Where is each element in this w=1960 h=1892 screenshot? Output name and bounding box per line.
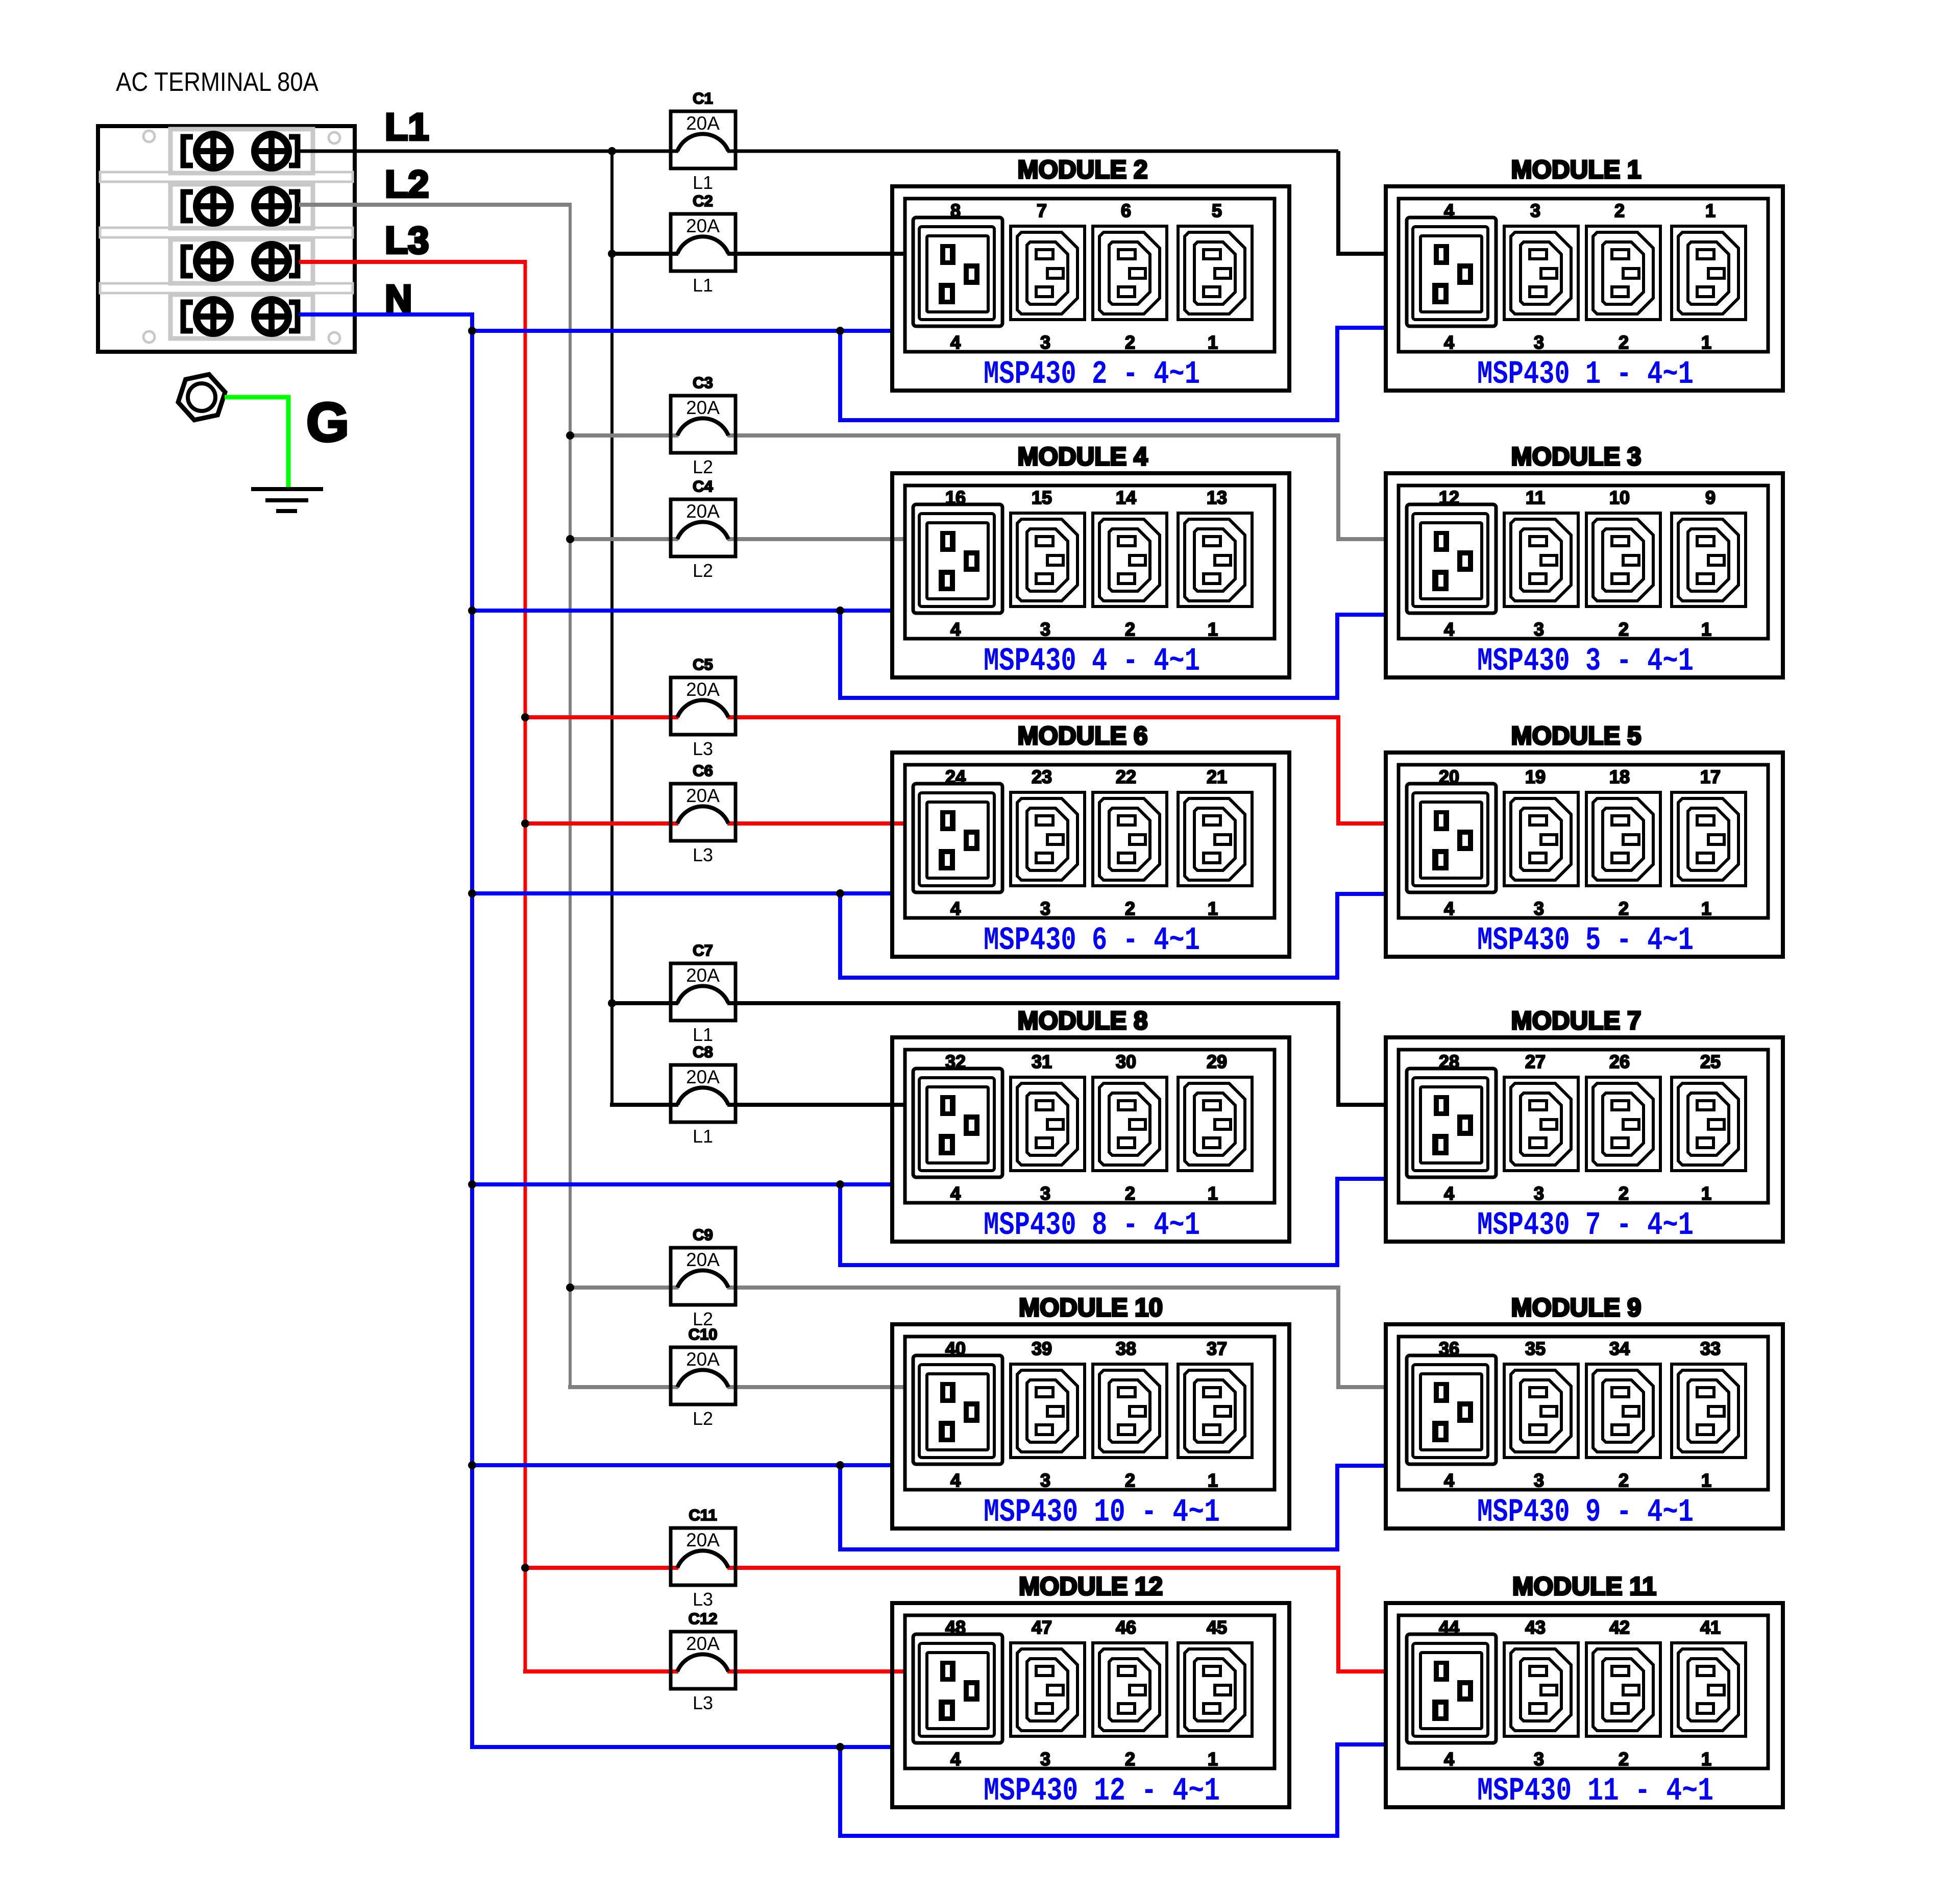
svg-text:AC TERMINAL 80A: AC TERMINAL 80A bbox=[116, 67, 318, 97]
wire N branch under module 8 to module 7 bbox=[840, 1179, 1386, 1265]
wire N row 6 to module 12 bbox=[470, 1745, 892, 1749]
junction N row 1 branch bbox=[836, 327, 844, 335]
module 12 (MSP430 outlet module) bbox=[892, 1572, 1289, 1807]
wire L1 feed from terminal bbox=[299, 150, 1338, 153]
junction N row 4 branch bbox=[836, 1180, 844, 1188]
svg-text:2: 2 bbox=[1125, 1183, 1135, 1204]
svg-text:15: 15 bbox=[1032, 487, 1052, 508]
circuit breaker C7 20A bbox=[671, 941, 736, 1021]
svg-text:41: 41 bbox=[1700, 1617, 1721, 1638]
svg-text:C1: C1 bbox=[693, 89, 713, 107]
svg-text:2: 2 bbox=[1125, 898, 1135, 919]
wire N feed from terminal bbox=[299, 312, 474, 317]
svg-text:L3: L3 bbox=[385, 219, 429, 261]
svg-text:4: 4 bbox=[1444, 332, 1454, 353]
outlet 26 (C13 socket) bbox=[1586, 1077, 1660, 1171]
svg-text:20A: 20A bbox=[686, 501, 720, 522]
outlet 28 (C19 socket) bbox=[1407, 1069, 1496, 1177]
outlet 18 (C13 socket) bbox=[1586, 792, 1660, 886]
svg-text:20A: 20A bbox=[686, 785, 720, 806]
svg-text:2: 2 bbox=[1619, 1183, 1629, 1204]
svg-text:MSP430 9 - 4~1: MSP430 9 - 4~1 bbox=[1477, 1494, 1694, 1531]
svg-text:C3: C3 bbox=[693, 374, 713, 392]
svg-text:2: 2 bbox=[1125, 332, 1135, 353]
svg-text:20A: 20A bbox=[686, 1633, 720, 1654]
svg-text:13: 13 bbox=[1207, 487, 1227, 508]
svg-text:20A: 20A bbox=[686, 1249, 720, 1270]
svg-text:C4: C4 bbox=[693, 477, 713, 495]
circuit breaker C8 20A bbox=[671, 1043, 736, 1122]
svg-text:C12: C12 bbox=[689, 1610, 718, 1628]
svg-text:2: 2 bbox=[1619, 1470, 1629, 1491]
outlet 11 (C13 socket) bbox=[1504, 513, 1578, 607]
wire phase L3 row to breaker C5 and module 5 bbox=[525, 717, 1386, 823]
module 6 (MSP430 outlet module) bbox=[892, 721, 1289, 957]
svg-text:5: 5 bbox=[1212, 200, 1222, 221]
circuit breaker C11 20A bbox=[671, 1506, 736, 1585]
svg-text:MODULE 1: MODULE 1 bbox=[1511, 155, 1641, 184]
svg-text:L2: L2 bbox=[693, 1408, 713, 1429]
svg-text:2: 2 bbox=[1619, 619, 1629, 640]
svg-text:1: 1 bbox=[1701, 898, 1711, 919]
svg-text:35: 35 bbox=[1525, 1338, 1546, 1359]
junction N row 2 branch bbox=[836, 607, 844, 615]
outlet 19 (C13 socket) bbox=[1504, 792, 1578, 886]
svg-text:4: 4 bbox=[1444, 1749, 1454, 1769]
svg-text:C6: C6 bbox=[693, 762, 713, 780]
svg-text:20A: 20A bbox=[686, 679, 720, 700]
svg-text:43: 43 bbox=[1525, 1617, 1546, 1638]
svg-text:2: 2 bbox=[1619, 332, 1629, 353]
wire L2 trunk vertical bbox=[569, 203, 572, 1387]
svg-text:19: 19 bbox=[1525, 766, 1546, 787]
junction L2 trunk at C4 bbox=[566, 535, 574, 543]
svg-text:4: 4 bbox=[950, 1183, 961, 1204]
module 3 (MSP430 outlet module) bbox=[1386, 442, 1783, 677]
svg-text:C9: C9 bbox=[693, 1226, 713, 1244]
wire phase L3 row to breaker C6 and module 6 bbox=[523, 821, 905, 826]
svg-text:21: 21 bbox=[1207, 766, 1227, 787]
svg-text:1: 1 bbox=[1701, 1749, 1711, 1769]
svg-text:MSP430 5 - 4~1: MSP430 5 - 4~1 bbox=[1477, 923, 1694, 959]
outlet 7 (C13 socket) bbox=[1011, 226, 1085, 320]
svg-text:26: 26 bbox=[1609, 1051, 1630, 1072]
svg-text:2: 2 bbox=[1125, 1749, 1135, 1769]
svg-text:MODULE 6: MODULE 6 bbox=[1018, 721, 1148, 750]
svg-text:MSP430 7 - 4~1: MSP430 7 - 4~1 bbox=[1477, 1207, 1694, 1244]
svg-text:20A: 20A bbox=[686, 215, 720, 236]
svg-text:C11: C11 bbox=[689, 1506, 717, 1524]
svg-text:20A: 20A bbox=[686, 397, 720, 418]
junction N trunk row 5 bbox=[468, 1461, 476, 1469]
svg-text:1: 1 bbox=[1208, 619, 1218, 640]
svg-text:29: 29 bbox=[1207, 1051, 1227, 1072]
svg-text:3: 3 bbox=[1534, 1470, 1544, 1491]
wire N branch under module 2 to module 1 bbox=[840, 328, 1386, 420]
svg-text:4: 4 bbox=[1444, 619, 1454, 640]
svg-text:MSP430 8 - 4~1: MSP430 8 - 4~1 bbox=[984, 1207, 1200, 1244]
junction L1 trunk at C2 bbox=[608, 250, 616, 258]
svg-text:9: 9 bbox=[1705, 487, 1716, 508]
outlet 1 (C13 socket) bbox=[1672, 226, 1746, 320]
svg-text:MSP430 6 - 4~1: MSP430 6 - 4~1 bbox=[984, 923, 1200, 959]
ground stud (hex nut) bbox=[178, 374, 225, 420]
outlet 27 (C13 socket) bbox=[1504, 1077, 1578, 1171]
wire phase L2 row to breaker C3 and module 3 bbox=[570, 435, 1386, 539]
wire N branch under module 4 to module 3 bbox=[840, 611, 1386, 698]
junction L2 trunk at C3 bbox=[566, 431, 574, 440]
circuit breaker C3 20A bbox=[671, 374, 736, 453]
svg-text:4: 4 bbox=[950, 1470, 961, 1491]
svg-text:20A: 20A bbox=[686, 965, 720, 986]
svg-text:MSP430 4 - 4~1: MSP430 4 - 4~1 bbox=[984, 643, 1200, 680]
svg-text:47: 47 bbox=[1032, 1617, 1052, 1638]
svg-text:MSP430 2 - 4~1: MSP430 2 - 4~1 bbox=[984, 356, 1200, 393]
module 1 (MSP430 outlet module) bbox=[1386, 155, 1783, 391]
svg-text:18: 18 bbox=[1609, 766, 1630, 787]
outlet 37 (C13 socket) bbox=[1178, 1364, 1252, 1458]
svg-text:23: 23 bbox=[1032, 766, 1052, 787]
junction N trunk row 4 bbox=[468, 1180, 476, 1188]
outlet 24 (C19 socket) bbox=[913, 784, 1002, 892]
svg-text:31: 31 bbox=[1032, 1051, 1052, 1072]
outlet 48 (C19 socket) bbox=[913, 1634, 1002, 1743]
terminal screws row L2 bbox=[183, 189, 298, 224]
svg-text:MSP430 3 - 4~1: MSP430 3 - 4~1 bbox=[1477, 643, 1694, 680]
outlet 30 (C13 socket) bbox=[1093, 1077, 1167, 1171]
circuit breaker C2 20A bbox=[671, 192, 736, 271]
svg-text:1: 1 bbox=[1208, 1183, 1218, 1204]
svg-text:L3: L3 bbox=[693, 1589, 713, 1610]
outlet 38 (C13 socket) bbox=[1093, 1364, 1167, 1458]
wire phase L3 row to breaker C11 and module 11 bbox=[525, 1568, 1386, 1671]
wire phase L1 row to breaker C8 and module 8 bbox=[610, 1103, 905, 1107]
svg-text:L3: L3 bbox=[693, 844, 713, 865]
wire phase L3 row to breaker C12 and module 12 bbox=[523, 1669, 905, 1673]
svg-text:37: 37 bbox=[1207, 1338, 1227, 1359]
junction N trunk row 3 bbox=[468, 889, 476, 898]
svg-text:2: 2 bbox=[1619, 1749, 1629, 1769]
wire N row 1 to module 2 bbox=[470, 329, 892, 333]
svg-text:25: 25 bbox=[1700, 1051, 1721, 1072]
wire N row 5 to module 10 bbox=[470, 1463, 892, 1467]
outlet 9 (C13 socket) bbox=[1672, 513, 1746, 607]
outlet 4 (C19 socket) bbox=[1407, 217, 1496, 326]
svg-text:MODULE 4: MODULE 4 bbox=[1018, 442, 1148, 471]
wire N row 4 to module 8 bbox=[470, 1182, 892, 1186]
svg-text:MSP430 10 - 4~1: MSP430 10 - 4~1 bbox=[984, 1494, 1220, 1531]
svg-text:3: 3 bbox=[1040, 1470, 1050, 1491]
outlet 6 (C13 socket) bbox=[1093, 226, 1167, 320]
terminal screws row L3 bbox=[183, 244, 298, 279]
wire L3 trunk vertical bbox=[524, 260, 527, 1671]
outlet 5 (C13 socket) bbox=[1178, 226, 1252, 320]
svg-text:42: 42 bbox=[1609, 1617, 1630, 1638]
outlet 40 (C19 socket) bbox=[913, 1355, 1002, 1464]
svg-text:L3: L3 bbox=[693, 1692, 713, 1713]
outlet 42 (C13 socket) bbox=[1586, 1643, 1660, 1736]
outlet 33 (C13 socket) bbox=[1672, 1364, 1746, 1458]
junction L1 trunk at C1 bbox=[608, 147, 616, 155]
svg-text:3: 3 bbox=[1534, 1183, 1544, 1204]
svg-text:MSP430 1 - 4~1: MSP430 1 - 4~1 bbox=[1477, 356, 1694, 393]
svg-text:2: 2 bbox=[1614, 200, 1625, 221]
svg-text:3: 3 bbox=[1040, 1749, 1050, 1769]
svg-text:11: 11 bbox=[1526, 487, 1545, 508]
svg-text:3: 3 bbox=[1040, 619, 1050, 640]
svg-text:1: 1 bbox=[1701, 1183, 1711, 1204]
junction N row 5 branch bbox=[836, 1461, 844, 1469]
circuit breaker C10 20A bbox=[671, 1325, 736, 1404]
svg-text:L2: L2 bbox=[385, 163, 429, 205]
svg-text:MODULE 8: MODULE 8 bbox=[1018, 1006, 1148, 1035]
outlet 47 (C13 socket) bbox=[1011, 1643, 1085, 1736]
svg-text:C2: C2 bbox=[693, 192, 713, 210]
svg-text:14: 14 bbox=[1116, 487, 1136, 508]
svg-text:4: 4 bbox=[950, 898, 961, 919]
outlet 17 (C13 socket) bbox=[1672, 792, 1746, 886]
module 2 (MSP430 outlet module) bbox=[892, 155, 1289, 391]
junction N trunk row 1 bbox=[468, 327, 476, 335]
outlet 13 (C13 socket) bbox=[1178, 513, 1252, 607]
circuit breaker C4 20A bbox=[671, 477, 736, 556]
svg-text:22: 22 bbox=[1116, 766, 1136, 787]
outlet 35 (C13 socket) bbox=[1504, 1364, 1578, 1458]
svg-text:MODULE 11: MODULE 11 bbox=[1512, 1572, 1656, 1600]
svg-text:L1: L1 bbox=[693, 172, 713, 193]
wire phase L2 row to breaker C10 and module 10 bbox=[568, 1385, 905, 1389]
junction N trunk row 2 bbox=[468, 607, 476, 615]
svg-text:1: 1 bbox=[1705, 200, 1716, 221]
svg-text:17: 17 bbox=[1700, 766, 1721, 787]
svg-text:3: 3 bbox=[1530, 200, 1540, 221]
svg-text:30: 30 bbox=[1116, 1051, 1136, 1072]
terminal screws row N bbox=[183, 299, 298, 334]
svg-text:2: 2 bbox=[1619, 898, 1629, 919]
svg-text:4: 4 bbox=[950, 332, 961, 353]
svg-text:3: 3 bbox=[1040, 1183, 1050, 1204]
svg-text:MODULE 9: MODULE 9 bbox=[1511, 1293, 1641, 1322]
svg-text:20A: 20A bbox=[686, 113, 720, 134]
svg-text:4: 4 bbox=[1444, 898, 1454, 919]
svg-text:27: 27 bbox=[1525, 1051, 1546, 1072]
svg-text:MODULE 2: MODULE 2 bbox=[1018, 155, 1148, 184]
svg-text:4: 4 bbox=[1444, 1470, 1454, 1491]
svg-text:MSP430 12 - 4~1: MSP430 12 - 4~1 bbox=[984, 1773, 1220, 1810]
circuit breaker C5 20A bbox=[671, 656, 736, 735]
svg-text:MSP430 11 - 4~1: MSP430 11 - 4~1 bbox=[1477, 1773, 1713, 1810]
svg-text:L2: L2 bbox=[693, 456, 713, 477]
svg-text:C5: C5 bbox=[693, 656, 713, 673]
module 11 (MSP430 outlet module) bbox=[1386, 1572, 1783, 1807]
outlet 46 (C13 socket) bbox=[1093, 1643, 1167, 1736]
svg-text:L1: L1 bbox=[693, 1126, 713, 1147]
circuit breaker C12 20A bbox=[671, 1610, 736, 1689]
svg-text:20A: 20A bbox=[686, 1349, 720, 1370]
svg-text:45: 45 bbox=[1207, 1617, 1227, 1638]
wire N trunk vertical bbox=[470, 312, 474, 1747]
outlet 12 (C19 socket) bbox=[1407, 504, 1496, 613]
module 9 (MSP430 outlet module) bbox=[1386, 1293, 1783, 1529]
svg-text:46: 46 bbox=[1116, 1617, 1136, 1638]
svg-text:1: 1 bbox=[1701, 332, 1711, 353]
wire N branch under module 6 to module 5 bbox=[840, 893, 1386, 978]
outlet 10 (C13 socket) bbox=[1586, 513, 1660, 607]
wire N branch under module 12 to module 11 bbox=[840, 1744, 1386, 1836]
outlet 21 (C13 socket) bbox=[1178, 792, 1252, 886]
wire phase L1 row to breaker C2 and module 2 bbox=[610, 252, 905, 256]
module 7 (MSP430 outlet module) bbox=[1386, 1006, 1783, 1242]
junction L3 trunk at C11 bbox=[521, 1564, 529, 1572]
svg-text:G: G bbox=[306, 391, 349, 453]
svg-text:33: 33 bbox=[1700, 1338, 1721, 1359]
AC terminal block 80A bbox=[98, 67, 355, 352]
outlet 39 (C13 socket) bbox=[1011, 1364, 1085, 1458]
junction N row 3 branch bbox=[836, 889, 844, 898]
circuit breaker C1 20A bbox=[671, 89, 736, 168]
junction L2 trunk at C9 bbox=[566, 1283, 574, 1292]
svg-text:20A: 20A bbox=[686, 1066, 720, 1087]
svg-text:C8: C8 bbox=[693, 1043, 713, 1061]
svg-text:1: 1 bbox=[1208, 332, 1218, 353]
svg-text:3: 3 bbox=[1534, 619, 1544, 640]
svg-text:L1: L1 bbox=[693, 1024, 713, 1045]
svg-text:1: 1 bbox=[1208, 898, 1218, 919]
outlet 16 (C19 socket) bbox=[913, 504, 1002, 613]
outlet 41 (C13 socket) bbox=[1672, 1643, 1746, 1736]
svg-text:4: 4 bbox=[950, 619, 961, 640]
svg-text:MODULE 3: MODULE 3 bbox=[1511, 442, 1641, 471]
junction L3 trunk at C5 bbox=[521, 713, 529, 721]
svg-text:1: 1 bbox=[1208, 1749, 1218, 1769]
svg-text:C7: C7 bbox=[693, 941, 713, 959]
outlet 8 (C19 socket) bbox=[913, 217, 1002, 326]
outlet 20 (C19 socket) bbox=[1407, 784, 1496, 892]
outlet 3 (C13 socket) bbox=[1504, 226, 1578, 320]
circuit breaker C9 20A bbox=[671, 1226, 736, 1305]
wire N branch under module 10 to module 9 bbox=[840, 1465, 1386, 1549]
svg-text:1: 1 bbox=[1701, 1470, 1711, 1491]
outlet 14 (C13 socket) bbox=[1093, 513, 1167, 607]
svg-text:L1: L1 bbox=[385, 106, 429, 148]
junction N row 6 branch bbox=[836, 1743, 844, 1751]
svg-text:10: 10 bbox=[1609, 487, 1630, 508]
svg-text:34: 34 bbox=[1609, 1338, 1630, 1359]
outlet 44 (C19 socket) bbox=[1407, 1634, 1496, 1743]
svg-text:L1: L1 bbox=[693, 275, 713, 296]
outlet 34 (C13 socket) bbox=[1586, 1364, 1660, 1458]
wire phase L1 from C1 down to module 1 bbox=[1338, 151, 1386, 254]
ground symbol bbox=[251, 489, 323, 511]
svg-text:MODULE 12: MODULE 12 bbox=[1019, 1572, 1163, 1600]
svg-text:6: 6 bbox=[1121, 200, 1131, 221]
outlet 36 (C19 socket) bbox=[1407, 1355, 1496, 1464]
svg-text:L3: L3 bbox=[693, 738, 713, 759]
module 8 (MSP430 outlet module) bbox=[892, 1006, 1289, 1242]
wire phase L1 row to breaker C7 and module 7 bbox=[612, 1003, 1386, 1105]
outlet 45 (C13 socket) bbox=[1178, 1643, 1252, 1736]
svg-text:3: 3 bbox=[1534, 1749, 1544, 1769]
module 4 (MSP430 outlet module) bbox=[892, 442, 1289, 677]
outlet 43 (C13 socket) bbox=[1504, 1643, 1578, 1736]
outlet 29 (C13 socket) bbox=[1178, 1077, 1252, 1171]
circuit breaker C6 20A bbox=[671, 762, 736, 841]
terminal screws row L1 bbox=[183, 134, 298, 168]
svg-text:MODULE 10: MODULE 10 bbox=[1019, 1293, 1163, 1322]
svg-text:3: 3 bbox=[1534, 332, 1544, 353]
wire L3 feed from terminal bbox=[299, 260, 527, 264]
outlet 25 (C13 socket) bbox=[1672, 1077, 1746, 1171]
wire phase L2 row to breaker C9 and module 9 bbox=[570, 1288, 1386, 1387]
junction L1 trunk at C7 bbox=[608, 999, 616, 1007]
wire L2 feed from terminal bbox=[299, 203, 572, 207]
wire ground (green) bbox=[225, 397, 288, 489]
svg-text:MODULE 7: MODULE 7 bbox=[1511, 1006, 1641, 1035]
svg-text:3: 3 bbox=[1040, 898, 1050, 919]
outlet 15 (C13 socket) bbox=[1011, 513, 1085, 607]
svg-text:C10: C10 bbox=[689, 1325, 718, 1343]
wire L1 trunk vertical bbox=[610, 151, 614, 1105]
svg-text:1: 1 bbox=[1208, 1470, 1218, 1491]
svg-text:1: 1 bbox=[1701, 619, 1711, 640]
svg-text:MODULE 5: MODULE 5 bbox=[1511, 721, 1641, 750]
svg-text:L2: L2 bbox=[693, 560, 713, 581]
svg-text:2: 2 bbox=[1125, 1470, 1135, 1491]
outlet 32 (C19 socket) bbox=[913, 1069, 1002, 1177]
outlet 23 (C13 socket) bbox=[1011, 792, 1085, 886]
outlet 31 (C13 socket) bbox=[1011, 1077, 1085, 1171]
svg-text:39: 39 bbox=[1032, 1338, 1052, 1359]
outlet 2 (C13 socket) bbox=[1586, 226, 1660, 320]
svg-text:3: 3 bbox=[1040, 332, 1050, 353]
svg-text:7: 7 bbox=[1037, 200, 1047, 221]
module 5 (MSP430 outlet module) bbox=[1386, 721, 1783, 957]
svg-text:4: 4 bbox=[950, 1749, 961, 1769]
wire phase L2 row to breaker C4 and module 4 bbox=[568, 537, 905, 541]
module 10 (MSP430 outlet module) bbox=[892, 1293, 1289, 1529]
wire N row 2 to module 4 bbox=[470, 609, 892, 613]
svg-text:38: 38 bbox=[1116, 1338, 1136, 1359]
svg-text:20A: 20A bbox=[686, 1530, 720, 1550]
svg-text:2: 2 bbox=[1125, 619, 1135, 640]
wire N row 3 to module 6 bbox=[470, 891, 892, 895]
svg-text:3: 3 bbox=[1534, 898, 1544, 919]
junction L3 trunk at C6 bbox=[521, 819, 529, 828]
outlet 22 (C13 socket) bbox=[1093, 792, 1167, 886]
svg-text:4: 4 bbox=[1444, 1183, 1454, 1204]
